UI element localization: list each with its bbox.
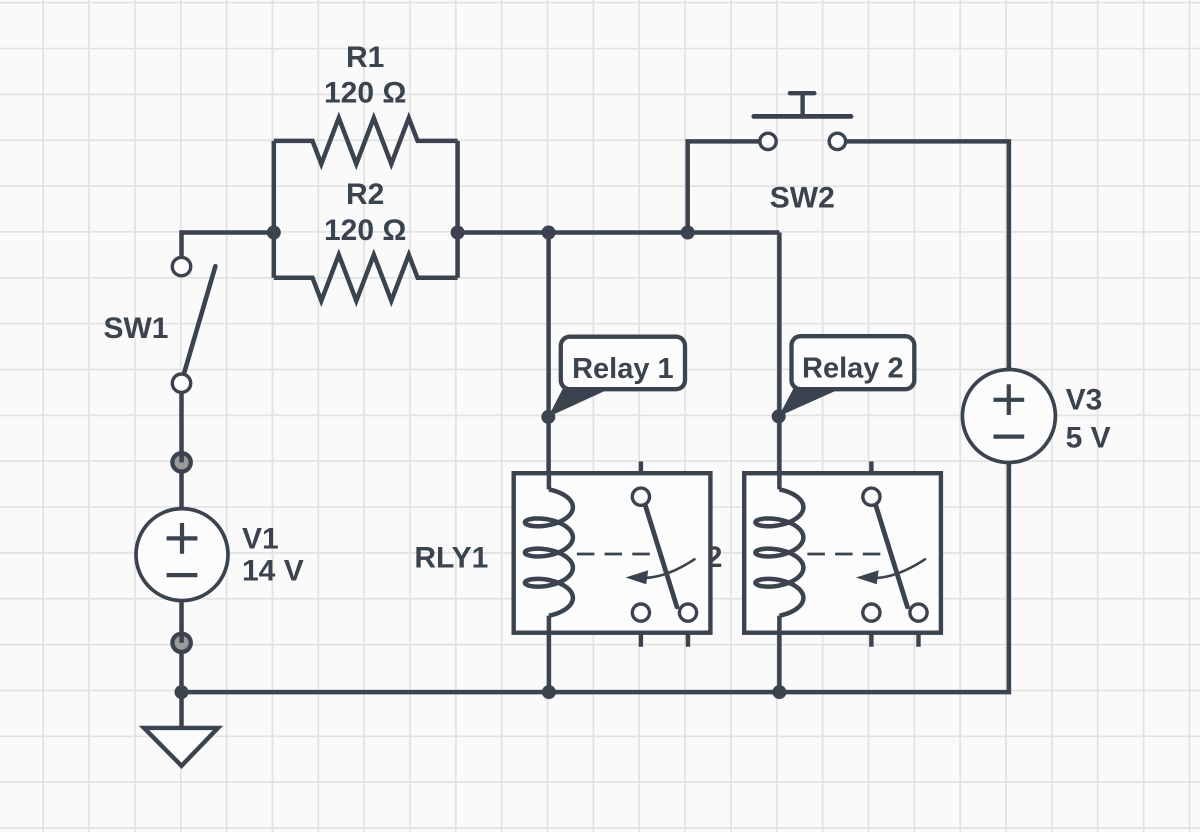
svg-text:Relay 1: Relay 1: [572, 353, 674, 385]
svg-text:R2: R2: [346, 178, 384, 211]
svg-text:5 V: 5 V: [1066, 422, 1111, 455]
svg-text:120 Ω: 120 Ω: [324, 77, 406, 110]
svg-text:V1: V1: [242, 522, 279, 555]
svg-text:120 Ω: 120 Ω: [324, 214, 406, 247]
svg-text:SW1: SW1: [103, 312, 168, 345]
svg-text:14 V: 14 V: [242, 554, 304, 587]
svg-text:Relay 2: Relay 2: [802, 353, 904, 385]
svg-text:V3: V3: [1066, 383, 1103, 416]
svg-text:R1: R1: [346, 41, 384, 74]
svg-text:RLY1: RLY1: [414, 541, 488, 574]
svg-text:SW2: SW2: [770, 182, 835, 215]
